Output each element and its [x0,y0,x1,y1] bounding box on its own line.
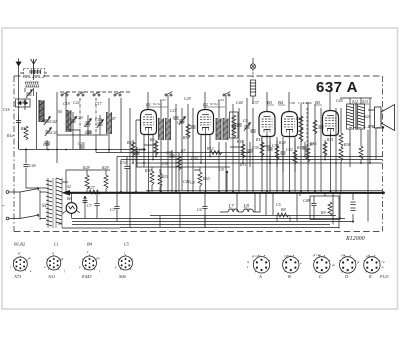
svg-text:C9: C9 [219,167,224,172]
capacitor C6 [202,207,207,209]
svg-text:R29: R29 [101,165,108,170]
svg-text:R66: R66 [305,101,312,105]
capacitor C44 [23,165,28,167]
svg-text:C19: C19 [95,117,102,122]
svg-text:C35: C35 [252,145,259,150]
tube B2 (IF amplifier) [198,110,214,135]
capacitor C36 [169,155,174,157]
svg-text:C20: C20 [76,115,83,120]
svg-text:S13: S13 [362,99,368,104]
capacitor C31 [134,152,139,154]
L7 L8 chokes [220,209,260,212]
caps below bus [84,192,117,222]
trimmer C21 [85,119,92,127]
capacitor C3 [114,207,119,209]
svg-text:A: A [258,274,262,279]
svg-text:S1 S2: S1 S2 [153,102,161,106]
resistor R8 [277,213,289,217]
svg-text:R6: R6 [149,137,154,142]
svg-text:C44: C44 [29,163,36,168]
svg-text:R8: R8 [280,207,285,212]
svg-text:C17: C17 [95,101,103,106]
chassis dash-dot border [14,76,383,232]
extra cluster above heavy bus (x145-165) [127,156,160,192]
svg-text:C31: C31 [160,98,166,102]
svg-text:C5: C5 [276,202,281,207]
svg-text:an: an [28,256,32,260]
capacitor C47 [302,147,307,149]
svg-text:R18: R18 [278,140,285,145]
tube B5 (output pentode) [323,111,339,136]
antenna pad box [16,99,31,149]
svg-text:B3: B3 [267,100,273,105]
svg-text:R12: R12 [206,146,213,151]
resistor R15 [260,142,264,156]
svg-text:C36: C36 [166,150,173,155]
svg-text:+a: +a [381,260,385,264]
socket C [313,255,330,273]
resistor R14 [299,116,303,130]
arrester dashed box [24,69,45,78]
svg-text:P123: P123 [379,274,388,279]
socket E443 (tube B4) [82,255,97,270]
capacitor C2 [94,204,99,206]
socket A73 (tube B1,B2) [13,256,28,271]
socket E [364,255,381,273]
heavy bus [66,192,383,194]
svg-text:R12000: R12000 [345,236,365,242]
svg-text:C44: C44 [298,101,304,105]
svg-text:R10: R10 [202,176,209,181]
svg-text:C32: C32 [120,160,127,165]
trimmer switch on IF2 [223,92,231,97]
right-side vertical drops below bus [255,192,356,225]
svg-text:L1: L1 [53,242,59,247]
dash-dot separator right of output stage [367,130,369,222]
left column wires [19,73,146,188]
pilot lamp column [250,58,255,104]
resistor R9 [328,202,332,216]
trimmer C42 [44,117,51,125]
band switch S7 [93,92,101,97]
socket A31 (tube L1) [46,255,61,270]
variable capacitor C19 [97,120,104,128]
resistor R31 [158,173,162,187]
rectifier tube B6 [62,192,80,219]
svg-text:C6: C6 [197,207,202,212]
tube B1 (mixer) [141,110,157,135]
trimmer C43 [45,128,52,136]
svg-text:C16: C16 [3,107,10,112]
svg-text:C26: C26 [78,141,85,146]
R-C cluster near volume control [194,167,227,192]
svg-text:B5: B5 [315,100,321,105]
svg-text:C45: C45 [336,98,343,103]
input coil [25,82,39,87]
svg-text:S5: S5 [58,109,62,114]
svg-text:E: E [368,274,372,279]
svg-text:B4: B4 [87,242,93,247]
socket A [253,255,270,273]
resistor R17 [313,120,317,134]
band switch S5 [61,92,69,97]
transformer windings [46,178,120,228]
svg-text:~: ~ [2,204,5,209]
svg-text:C34: C34 [191,156,198,161]
tube B4 (LF amplifier) [282,112,298,137]
svg-text:C34: C34 [218,98,224,102]
resistor R29 [104,175,108,189]
capacitor C32 [124,167,129,169]
svg-text:C33: C33 [162,161,169,166]
interstage parts [136,92,193,192]
svg-text:R28: R28 [82,165,89,170]
svg-text:R5: R5 [182,135,187,140]
svg-text:C8: C8 [190,180,195,185]
svg-text:R4: R4 [126,140,131,145]
resistor R36 (field coil) [339,133,343,147]
vertical drops from tubes to buses [57,98,376,228]
svg-text:R31: R31 [161,174,168,179]
socket B [282,255,299,273]
svg-text:gr a gr: gr a gr [252,254,261,258]
trimmer C20 [70,117,77,125]
svg-text:C47: C47 [307,142,315,147]
svg-text:R36: R36 [343,142,350,147]
svg-text:S12: S12 [352,99,358,104]
svg-text:gr f an: gr f an [313,253,322,257]
svg-text:R14: R14 [295,116,302,121]
socket D [339,255,356,273]
potentiometer R10 (volume) [198,172,202,186]
resistor R24 [359,146,363,160]
resistor R27 [89,190,101,194]
resistor R30 [150,171,154,185]
svg-text:R27: R27 [87,185,95,190]
svg-text:R1a: R1a [6,133,13,138]
svg-text:C31: C31 [139,147,146,152]
svg-text:A31: A31 [47,274,55,279]
svg-text:C22: C22 [73,100,80,105]
capacitor C7 [82,201,87,203]
resistor R21 [323,142,327,156]
svg-text:R30: R30 [144,168,151,173]
svg-text:B2: B2 [203,102,209,107]
capacitor C48 [311,204,316,206]
ground arrow [16,59,22,114]
band switch S8 [114,92,122,97]
svg-text:S3 S4: S3 S4 [210,102,218,106]
svg-text:C30: C30 [177,120,184,125]
resistor R6 [154,141,158,155]
capacitor C30 [173,117,178,119]
resistor R19 [293,150,297,164]
socket 506 (tube L5) [118,255,133,270]
capacitor C41 [318,126,323,128]
svg-text:f gr an: f gr an [284,254,293,258]
right box with C43 R9 [310,196,339,229]
trimmer switch on IF1 [165,92,173,97]
svg-text:C44: C44 [236,100,243,105]
coil S7 [107,112,112,134]
svg-text:C21: C21 [84,123,91,128]
svg-text:B6: B6 [67,196,71,201]
oscillator coil resistor [232,115,236,129]
svg-text:E443: E443 [81,274,92,279]
svg-text:R24: R24 [363,114,370,119]
band switch S6 [77,92,85,97]
svg-text:C48: C48 [303,198,310,203]
resistor R12 [210,151,222,155]
svg-text:A73: A73 [13,274,22,279]
svg-text:C44: C44 [183,179,190,184]
svg-text:B: B [288,274,291,279]
capacitor C42 [280,152,285,154]
R28 R29 resistors above heavy bus [66,170,110,192]
tube B3 (detector) [259,112,275,137]
junction dots [25,149,385,223]
svg-text:B4: B4 [278,100,284,105]
resistor R18 [275,146,279,160]
svg-text:C3: C3 [110,207,115,212]
resistor R5 [186,124,190,138]
svg-text:C38: C38 [289,101,295,105]
resistor R4 [131,142,135,156]
svg-text:C9: C9 [243,118,248,123]
svg-text:R15: R15 [255,137,262,142]
svg-text:R10: R10 [236,139,243,144]
svg-text:B1: B1 [146,102,151,107]
IF transformer winding S1 [159,118,164,140]
svg-text:R9: R9 [320,210,325,215]
trimmer C45 [26,90,33,98]
svg-text:R21: R21 [326,137,333,142]
svg-text:R1: R1 [20,126,25,131]
svg-text:L7: L7 [228,205,235,210]
svg-text:C42: C42 [50,119,57,124]
svg-text:C18: C18 [63,101,70,106]
capacitor C24a [44,142,49,144]
capacitor C35 [247,150,252,152]
capacitor C26 [79,146,84,148]
antenna Y [31,59,37,80]
svg-text:an: an [332,263,336,267]
resistor R7 [177,156,181,170]
trimmer C29 [179,117,186,125]
svg-text:C42: C42 [286,147,293,152]
svg-text:506: 506 [119,274,127,279]
IF transformer winding S2 [166,118,171,140]
svg-text:R19: R19 [296,145,303,150]
svg-text:L8: L8 [243,205,250,210]
svg-text:637 A: 637 A [316,79,358,96]
svg-text:C39: C39 [272,143,279,148]
capacitor C39 [267,148,272,150]
capacitor C27 [190,126,195,128]
resistor R28 [85,175,89,189]
coil S5 [66,110,71,132]
speaker [368,105,395,131]
svg-text:C29: C29 [184,96,191,101]
coil S4 (aerial) [39,100,44,122]
resistor R1 [24,126,28,140]
IF transformer winding S3 [216,118,221,140]
resistor R16 [306,148,310,162]
svg-text:C27: C27 [170,108,178,113]
IF transformer winding S4 [223,118,228,140]
svg-text:C24: C24 [43,142,50,147]
resistor R10 [241,144,245,158]
capacitor C24 [86,131,91,133]
svg-text:S2: S2 [67,184,71,189]
svg-text:L5: L5 [123,242,130,247]
svg-text:S3: S3 [58,221,62,226]
